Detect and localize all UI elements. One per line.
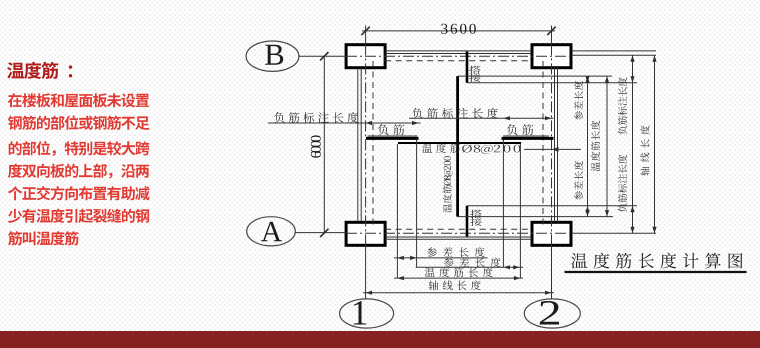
right beam edge line outer bbox=[557, 68, 559, 222]
axis bubble B bbox=[246, 41, 299, 71]
top beam edge right extension bbox=[572, 50, 657, 52]
red body line 1 bbox=[8, 93, 149, 107]
red heading 温度筋： bbox=[7, 62, 58, 79]
rebar temperature horizontal bbox=[398, 142, 521, 144]
extension line from neg bar right start bbox=[502, 140, 504, 267]
rebar negative bottom (vertical) bbox=[466, 206, 469, 237]
red body line 2 bbox=[8, 116, 150, 130]
rebar negative left (horizontal) bbox=[366, 137, 419, 140]
dim line axis length right (轴线长度) bbox=[654, 55, 656, 233]
grid line 2 bottom segment to bubble 2 bbox=[551, 245, 553, 299]
dim line temp bar length right (温度筋长度) bbox=[606, 76, 608, 217]
extension line at top neg bar end bbox=[467, 82, 637, 84]
grid line 2 top extension (3600 dim) bbox=[551, 26, 553, 45]
label 参差长度 row2 bbox=[444, 257, 501, 267]
label 参差长度 row1 bbox=[427, 247, 485, 257]
grid line 1 top extension (3600 dim) bbox=[365, 26, 367, 45]
dimension 3600 text bbox=[441, 24, 476, 34]
extension line from temp bar left end bbox=[396, 144, 398, 278]
grid line A right extension bbox=[572, 232, 657, 234]
left beam edge line outer bbox=[357, 68, 359, 222]
grid line B right extension bbox=[572, 54, 657, 56]
title 温度筋长度计算图 bbox=[571, 253, 742, 269]
label 负筋标注长度 left bbox=[274, 112, 358, 123]
label 参差长度 right bottom bbox=[574, 161, 583, 200]
dimension 6000 line bbox=[323, 56, 325, 233]
column B1 bbox=[346, 45, 385, 68]
bottom beam edge line upper bbox=[385, 236, 532, 238]
label 参差长度 right top bbox=[574, 81, 583, 120]
label 温度筋Ø8@200 vertical along bar bbox=[443, 156, 453, 212]
red body line 3 bbox=[9, 141, 150, 156]
label 负筋标注长度 right bottom bbox=[618, 155, 627, 213]
column A1 bbox=[346, 222, 385, 245]
grid line B left segment (circle B to column B1) bbox=[299, 55, 346, 57]
top beam edge line upper bbox=[385, 50, 532, 52]
rebar negative top (vertical) bbox=[466, 52, 469, 83]
dim line neg-bar-mark-length right vertical bbox=[632, 55, 634, 233]
axis bubble 2 bbox=[524, 299, 580, 328]
red body line 5 bbox=[8, 186, 150, 200]
rebar negative right (horizontal) bbox=[502, 137, 554, 140]
red footer bar bbox=[0, 331, 760, 348]
extension line at temp bar top bbox=[458, 75, 612, 77]
grid line B dash-dot through slab bbox=[346, 55, 572, 57]
right beam edge line inner bbox=[554, 68, 556, 222]
axis bubble A bbox=[247, 217, 296, 246]
rebar temperature vertical bbox=[456, 76, 459, 217]
top beam hidden (dashed) line bbox=[385, 60, 532, 62]
grid line 1 bottom segment to bubble 1 bbox=[365, 245, 367, 299]
extension line from temp bar right end bbox=[519, 144, 521, 278]
extension line at temp bar bottom bbox=[458, 216, 613, 218]
label 轴线长度 row4 bbox=[429, 280, 481, 290]
label 搭接 bottom lap splice bbox=[470, 210, 482, 218]
bottom beam hidden (dashed) line bbox=[385, 228, 532, 230]
label 温度筋长度 right bbox=[591, 121, 600, 172]
dim row3 temp bar length (温度筋长度) bbox=[394, 277, 523, 279]
column B2 bbox=[532, 45, 571, 68]
extension line from neg bar left end bbox=[416, 140, 418, 267]
left beam hidden (dashed) line bbox=[372, 61, 374, 229]
right beam hidden (dashed) line bbox=[542, 61, 544, 229]
red body line 4 bbox=[8, 164, 149, 179]
label 负筋标注长度 middle bbox=[412, 108, 498, 119]
label 搭接 top lap splice bbox=[469, 66, 481, 74]
dimension 3600 line bbox=[362, 30, 555, 32]
dim row4 axis length (轴线长度) bbox=[363, 292, 554, 294]
dim row2 stagger right (参差长度) bbox=[416, 266, 523, 268]
extension line at bottom bar top bbox=[467, 205, 637, 207]
label 温度筋Ø8@200 horizontal bbox=[422, 143, 460, 153]
leader line for 温度筋Ø8@200 bbox=[524, 148, 581, 150]
grid line A dash-dot through slab bbox=[346, 232, 572, 234]
grid line A left segment (circle A to column A1) bbox=[295, 232, 346, 234]
bottom beam edge line lower bbox=[385, 238, 532, 240]
grid line 2 dash-dot through slab bbox=[551, 44, 553, 245]
axis bubble 1 bbox=[340, 299, 394, 328]
top beam edge line lower bbox=[385, 53, 532, 55]
dim line neg-bar-mark-length left bbox=[268, 122, 421, 124]
column A2 bbox=[532, 222, 571, 245]
grid line 1 dash-dot through slab bbox=[365, 44, 367, 245]
label 负筋 right with underline bbox=[507, 124, 534, 135]
label 负筋标注长度 right top bbox=[618, 77, 627, 135]
red body line 7 bbox=[8, 231, 79, 245]
label 温度筋长度 row3 bbox=[425, 267, 493, 277]
label 负筋 left with underline bbox=[378, 124, 405, 135]
dim line stagger right (参差长度) bbox=[587, 76, 589, 217]
dim line neg-bar-mark-length right bbox=[409, 117, 554, 119]
label 轴线长度 right bbox=[640, 125, 649, 175]
left beam edge line inner bbox=[360, 68, 362, 222]
dimension 6000 text bbox=[311, 135, 321, 157]
red body line 6 bbox=[8, 209, 149, 223]
dim row1 stagger left (参差长度) bbox=[394, 257, 488, 259]
